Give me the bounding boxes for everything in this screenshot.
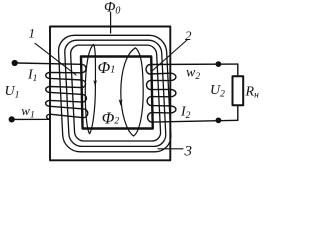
resistor R_H (load) [233,76,244,105]
svg-text:2: 2 [185,28,192,43]
core outer rectangle [50,27,170,161]
primary winding w1 (left leg) [15,63,88,119]
leakage flux loop phi2 [121,48,143,136]
secondary winding w2 (right leg) [146,64,238,122]
core window (inner bold rectangle) [81,57,153,129]
arrowhead of phi1 [93,80,97,87]
wire: right circuit bottom vertical [237,105,239,120]
svg-text:1: 1 [29,26,36,41]
terminal dot primary top [12,60,18,66]
leader line for label 3 [158,148,183,150]
leakage flux loop phi1 [85,44,95,133]
flux line loop C (innermost) [70,45,161,141]
arrowhead of phi2 [119,99,123,106]
flux line loop B (middle) [64,40,166,146]
terminal dot primary bottom [9,116,15,122]
terminal dot secondary bottom [216,117,222,123]
leader line for label 1 [35,43,76,75]
terminal dot secondary top [216,61,222,67]
flux phi0 pointer line [110,13,112,34]
svg-text:3: 3 [184,144,193,160]
leader line for label 2 [152,40,187,71]
wire: right circuit top vertical [237,64,239,76]
flux line loop A (outermost) [58,35,172,152]
